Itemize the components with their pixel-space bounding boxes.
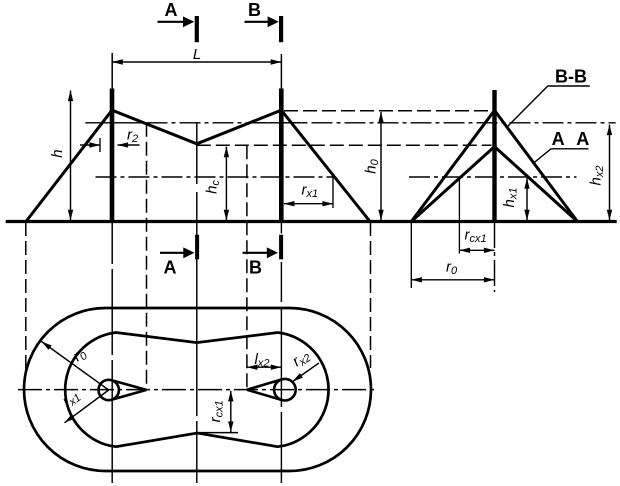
cut mark A top	[158, 0, 199, 42]
dimension hc	[204, 147, 227, 221]
dimension r0 section	[411, 258, 494, 280]
ridge left segment	[112, 110, 197, 144]
mast M1	[110, 89, 115, 222]
mast M2	[279, 89, 284, 222]
section B-B right slope	[495, 110, 578, 221]
dimension rcx1 section	[459, 227, 494, 251]
wire: centerline y=177 section	[409, 176, 577, 178]
wire: dashed vertical x=246.9	[246, 145, 248, 390]
cut mark B top	[245, 0, 284, 42]
wire: centerline y=123 dashdot	[147, 122, 616, 124]
wire: axis vertical right mast	[280, 222, 282, 483]
label B-B with leader	[508, 67, 590, 127]
wire: dashed apex level line	[284, 110, 493, 112]
wire: axis vertical center	[196, 123, 198, 483]
dimension h0	[362, 112, 381, 220]
wire: axis vertical left mast	[111, 222, 113, 483]
wire: centerline y=123 solid part left	[85, 122, 146, 124]
mast M1 thin top	[111, 53, 113, 90]
plan inner boundary	[65, 333, 328, 447]
svg-text:A: A	[552, 129, 565, 149]
section B-B left slope	[411, 110, 494, 221]
ridge right segment	[197, 110, 281, 144]
dimension rx1 plan	[59, 386, 109, 422]
wire: centerline y=123 solid part right	[247, 122, 306, 124]
label A A with leader	[533, 129, 589, 164]
right slope	[281, 110, 370, 221]
extension line x=411.3 below ground	[410, 223, 412, 289]
svg-text:B: B	[249, 258, 262, 278]
svg-text:A: A	[165, 0, 178, 20]
wire: dashed vertical x=370.5	[370, 222, 372, 368]
wire: section mast axis below ground	[494, 222, 496, 292]
teardrop left circle	[99, 380, 119, 400]
dimension hx2	[587, 125, 609, 221]
svg-text:h: h	[49, 149, 66, 157]
svg-text:L: L	[193, 46, 201, 63]
mast M2 thin top	[280, 54, 282, 90]
section A-A left slope	[411, 147, 494, 222]
svg-text:A: A	[576, 129, 589, 149]
dimension hx1	[501, 178, 527, 220]
dimension rx2 plan	[289, 347, 319, 382]
svg-text:A: A	[164, 258, 177, 278]
dimension L	[112, 46, 281, 63]
plan outer boundary	[24, 308, 371, 471]
dimension r0 plan	[42, 342, 109, 391]
teardrop right circle	[274, 379, 296, 401]
left slope	[26, 110, 112, 221]
dimension lx2 plan	[247, 351, 282, 370]
svg-text:B: B	[248, 0, 261, 20]
dimension rx1 elevation	[284, 178, 333, 209]
teardrop right cone	[247, 379, 282, 400]
dimension h	[49, 91, 71, 221]
dimension r2	[80, 126, 140, 152]
wire: dashed vertical x=25.8	[25, 222, 27, 370]
wire: dashed vertical x=146.5	[146, 123, 148, 390]
teardrop left cone	[112, 380, 147, 400]
extension line x=459.4	[458, 177, 460, 253]
ground line	[6, 220, 617, 223]
svg-text:B-B: B-B	[555, 67, 587, 87]
section mast U	[492, 90, 496, 222]
section A-A right slope	[495, 147, 578, 222]
cut mark A bottom	[160, 235, 199, 278]
wire: dashed center-low level line	[197, 144, 492, 146]
wire: centerline y=177 left	[96, 176, 334, 178]
cut mark B bottom	[243, 235, 284, 278]
wire: plan horizontal axis	[18, 389, 378, 391]
dimension rcx1 plan	[197, 391, 238, 433]
